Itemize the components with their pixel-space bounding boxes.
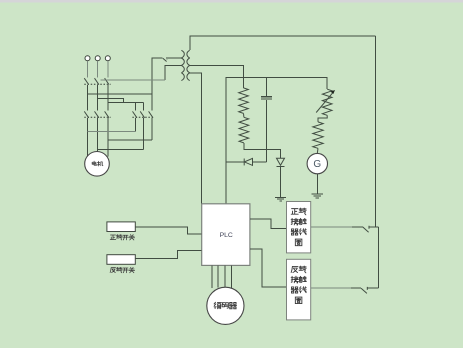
forward contactor coil box (287, 202, 311, 253)
wire PLC to rev coil (250, 249, 287, 287)
forward switch box (107, 222, 135, 232)
wire KM2p2 down (142, 118, 144, 150)
capacitor C1 (265, 78, 267, 96)
contactor KM2 pole 2 (140, 111, 144, 117)
wire secondary top (190, 36, 376, 50)
wire PLC-encoder 2 (217, 265, 219, 287)
wire PLC-encoder 3 (224, 265, 226, 287)
wire S1 down to phase A tap (151, 58, 153, 94)
wire top bus down (375, 36, 377, 227)
wire PLC-encoder 1 (211, 265, 213, 288)
wire R2 down (244, 143, 281, 158)
contactor KM1 pole 2 (95, 111, 99, 117)
contact KM1 aux (363, 226, 369, 233)
breaker QF pole 2 blade (95, 78, 99, 84)
wire R1-R2 (243, 113, 245, 117)
wire phase A tap (88, 93, 152, 95)
wire secondary tap to R1 (190, 65, 244, 88)
generator G (307, 153, 327, 173)
wire primary tap (165, 65, 181, 80)
contactor KM2 linkage (132, 116, 152, 118)
wire bus contact1-contact2 (378, 227, 380, 288)
wire crossover C (108, 139, 152, 141)
contact KM2 aux (361, 287, 367, 294)
breaker QF linkage (dashed) (84, 83, 110, 85)
terminal L1 (85, 56, 90, 61)
terminal L2 (95, 56, 100, 61)
wire node bus (226, 78, 327, 204)
wire reverse switch to PLC (135, 251, 201, 259)
terminal L3 (105, 56, 110, 61)
contactor KM2 pole 3 (149, 111, 153, 117)
encoder (207, 287, 244, 324)
breaker QF pole 3 blade (105, 78, 109, 84)
breaker QF pole 2 lower lead (97, 85, 99, 111)
switch S1 to transformer (152, 57, 182, 59)
wire KM2p3 down (151, 118, 153, 140)
wire G down (316, 174, 318, 194)
wire crossover B (98, 149, 144, 151)
wire forward switch to PLC (135, 227, 201, 234)
svg-text:PLC: PLC (220, 232, 233, 239)
wire rev coil to contact (311, 287, 351, 289)
wire to KM2 pole2 (142, 102, 144, 110)
top window strip (0, 0, 463, 3)
wire KM1p1 to motor (87, 118, 89, 156)
PLC U1 (202, 204, 250, 266)
wire L3 down (107, 61, 109, 77)
wire R3 to G (316, 148, 319, 153)
contactor KM2 pole 1 (133, 111, 137, 117)
resistor R1 (239, 88, 249, 114)
wire KM1p2 to motor (97, 118, 99, 152)
svg-text:G: G (313, 159, 321, 170)
motor M (85, 152, 110, 177)
potentiometer RP arrow (316, 92, 333, 112)
wire to KM2 pole1 (135, 102, 137, 110)
diode D1 (226, 161, 244, 163)
resistor R2 (239, 117, 249, 143)
wire L1 down (87, 61, 89, 77)
breaker QF pole 1 lower lead (87, 85, 89, 111)
wire PLC-encoder 4 (231, 265, 233, 288)
wire phase B tap (98, 98, 124, 102)
wire to KM2 pole3 (151, 94, 153, 111)
breaker QF pole 3 lower lead (107, 85, 109, 111)
wire secondary bottom to PLC (190, 73, 202, 204)
wire RP to R3 (318, 115, 327, 122)
contactor KM1 pole 1 (84, 111, 88, 117)
wire KM2p1 down (135, 118, 137, 132)
reverse contactor coil box (287, 259, 311, 320)
potentiometer RP (322, 89, 332, 115)
wire PLC to fwd coil (250, 219, 287, 228)
wire crossover A (88, 131, 136, 133)
contactor KM1 linkage (84, 116, 110, 118)
breaker QF pole 1 blade (84, 78, 88, 84)
transformer T1 secondary winding (187, 50, 190, 80)
transformer T1 primary winding (181, 50, 184, 80)
wire tap to breaker (101, 79, 166, 81)
wire fwd coil to contact (311, 226, 352, 228)
ground (D2) (275, 197, 286, 201)
diode D2 (277, 158, 285, 165)
contactor KM1 pole 3 (105, 111, 109, 117)
wire L2 down (97, 61, 99, 77)
wire KM1p3 to motor (107, 118, 109, 157)
wire phase C tap (108, 101, 144, 103)
ground (G) (311, 194, 323, 198)
wire contact2 to bus (368, 287, 379, 289)
resistor R3 (313, 122, 323, 148)
reverse switch box (107, 255, 135, 265)
wire contact1 to bus (369, 226, 378, 228)
